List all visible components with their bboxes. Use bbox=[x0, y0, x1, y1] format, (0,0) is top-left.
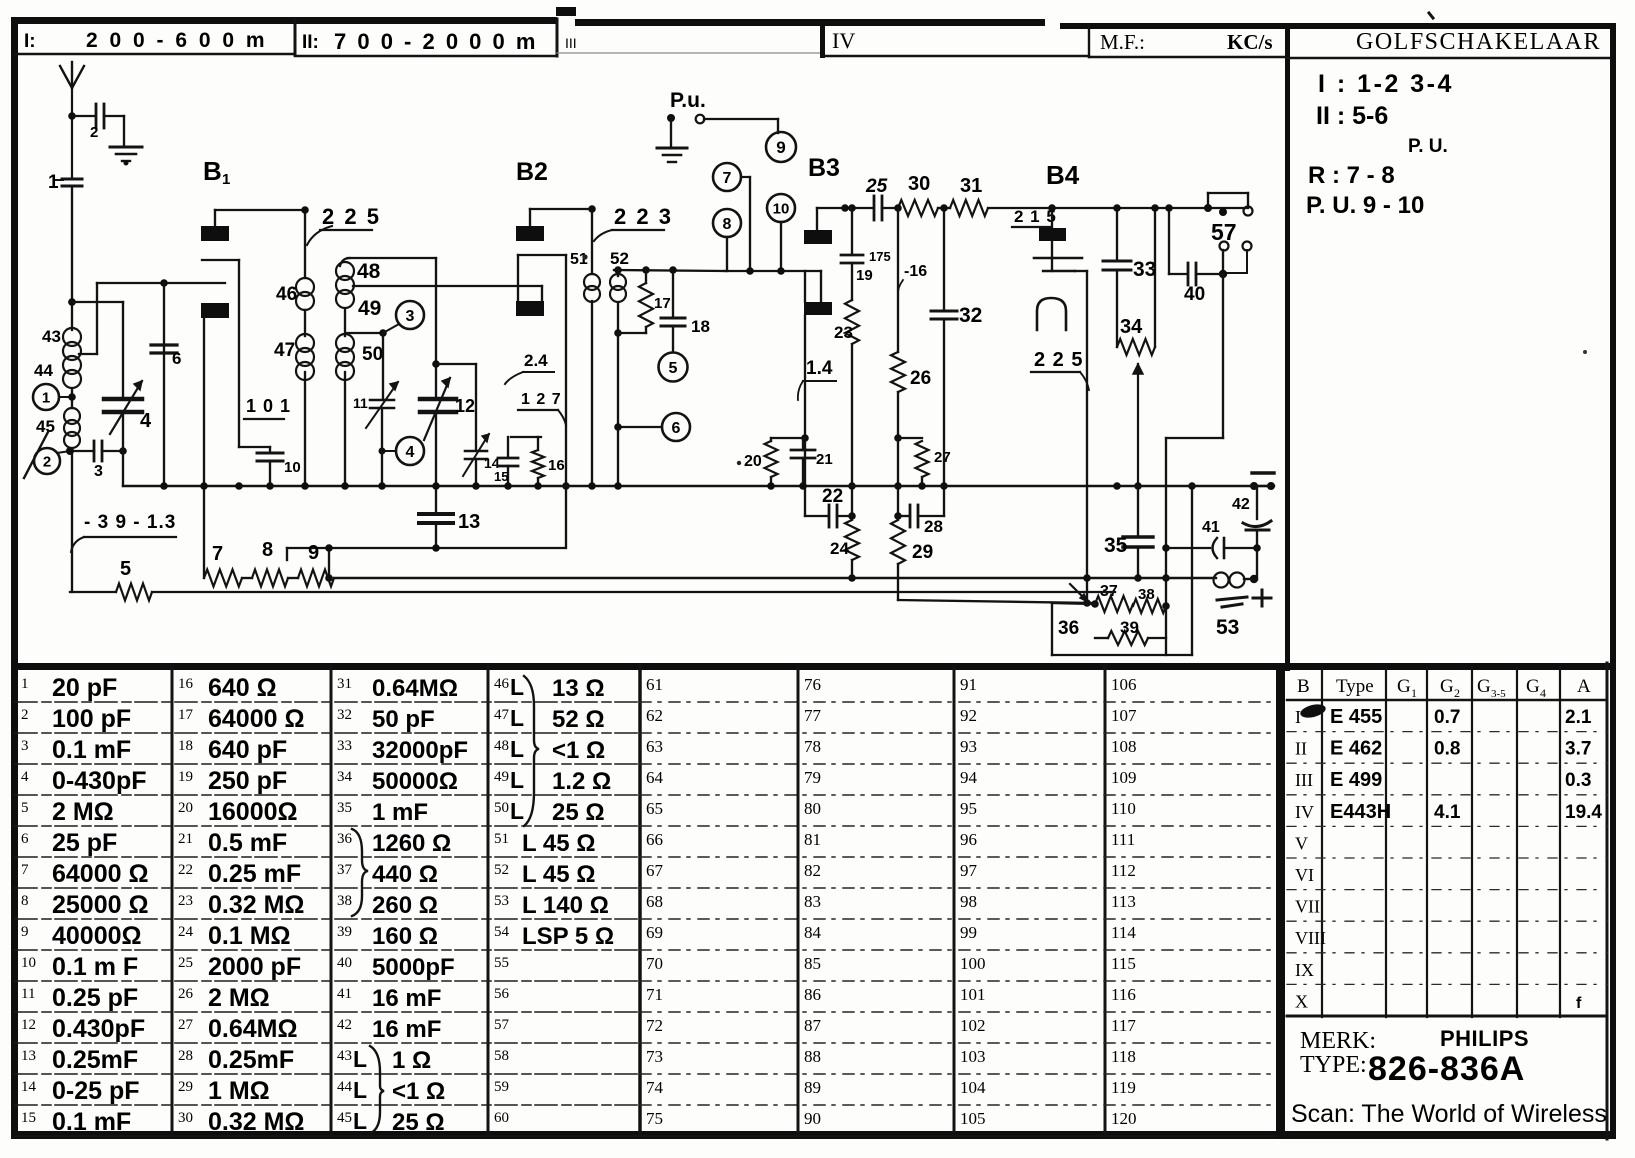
svg-text:25 Ω: 25 Ω bbox=[392, 1109, 445, 1136]
svg-text:111: 111 bbox=[1111, 830, 1135, 849]
svg-text:E 499: E 499 bbox=[1330, 769, 1382, 791]
svg-text:0.1 mF: 0.1 mF bbox=[52, 1108, 131, 1136]
svg-text:19.4: 19.4 bbox=[1565, 802, 1602, 823]
svg-text:20 pF: 20 pF bbox=[52, 674, 117, 702]
svg-text:IX: IX bbox=[1295, 960, 1314, 980]
svg-text:L: L bbox=[510, 674, 524, 700]
svg-text:43: 43 bbox=[337, 1048, 352, 1064]
svg-text:50: 50 bbox=[362, 344, 383, 365]
svg-text:II: II bbox=[1295, 739, 1307, 759]
svg-text:60: 60 bbox=[494, 1110, 509, 1126]
svg-text:III: III bbox=[1295, 770, 1313, 790]
svg-text:45: 45 bbox=[36, 417, 55, 436]
svg-text:13: 13 bbox=[458, 511, 480, 533]
svg-text:22: 22 bbox=[822, 486, 843, 507]
svg-text:104: 104 bbox=[960, 1078, 986, 1097]
svg-text:- 3 9 - 1.3: - 3 9 - 1.3 bbox=[84, 512, 176, 533]
svg-text:640 Ω: 640 Ω bbox=[208, 674, 277, 702]
svg-text:25: 25 bbox=[178, 955, 193, 971]
svg-text:24: 24 bbox=[830, 539, 849, 558]
svg-text:L: L bbox=[353, 1046, 367, 1072]
svg-text:9: 9 bbox=[776, 138, 785, 157]
svg-text:72: 72 bbox=[646, 1016, 663, 1035]
svg-text:0.5 mF: 0.5 mF bbox=[208, 829, 287, 857]
svg-text:15: 15 bbox=[494, 469, 508, 484]
svg-text:KC/s: KC/s bbox=[1227, 30, 1273, 54]
svg-text:2: 2 bbox=[43, 453, 51, 470]
svg-text:38: 38 bbox=[337, 893, 352, 909]
svg-text:20: 20 bbox=[744, 453, 762, 470]
svg-text:26: 26 bbox=[910, 368, 931, 389]
svg-text:4: 4 bbox=[140, 410, 152, 432]
svg-text:103: 103 bbox=[960, 1047, 986, 1066]
svg-text:1: 1 bbox=[222, 171, 230, 188]
svg-text:62: 62 bbox=[646, 706, 663, 725]
svg-text:L 45 Ω: L 45 Ω bbox=[522, 861, 596, 888]
svg-text:46: 46 bbox=[494, 676, 510, 692]
svg-text:0.64MΩ: 0.64MΩ bbox=[208, 1015, 298, 1043]
svg-text:MERK:: MERK: bbox=[1300, 1028, 1376, 1054]
svg-text:56: 56 bbox=[494, 986, 510, 1002]
svg-text:18: 18 bbox=[178, 738, 193, 754]
svg-text:250 pF: 250 pF bbox=[208, 767, 287, 795]
svg-text:52: 52 bbox=[610, 249, 629, 268]
svg-text:34: 34 bbox=[1120, 316, 1143, 338]
svg-text:105: 105 bbox=[960, 1109, 986, 1128]
svg-text:L: L bbox=[353, 1108, 367, 1134]
svg-text:42: 42 bbox=[1232, 496, 1250, 513]
svg-text:81: 81 bbox=[804, 830, 821, 849]
svg-text:109: 109 bbox=[1111, 768, 1137, 787]
svg-text:640 pF: 640 pF bbox=[208, 736, 287, 764]
svg-text:99: 99 bbox=[960, 923, 977, 942]
svg-text:107: 107 bbox=[1111, 706, 1137, 725]
svg-text:64: 64 bbox=[646, 768, 664, 787]
svg-text:32: 32 bbox=[959, 304, 982, 327]
svg-text:89: 89 bbox=[804, 1078, 821, 1097]
svg-text:98: 98 bbox=[960, 892, 977, 911]
svg-text:1: 1 bbox=[21, 676, 29, 692]
svg-text:VII: VII bbox=[1295, 897, 1320, 917]
svg-text:V: V bbox=[1295, 833, 1308, 853]
svg-text:B3: B3 bbox=[808, 154, 840, 182]
svg-text:59: 59 bbox=[494, 1079, 509, 1095]
svg-text:1: 1 bbox=[42, 389, 50, 406]
svg-text:40000Ω: 40000Ω bbox=[52, 922, 142, 950]
svg-text:36: 36 bbox=[1058, 618, 1079, 639]
svg-text:75: 75 bbox=[646, 1109, 663, 1128]
svg-text:5: 5 bbox=[120, 558, 131, 580]
svg-text:65: 65 bbox=[646, 799, 663, 818]
svg-text:25000 Ω: 25000 Ω bbox=[52, 891, 149, 919]
svg-text:36: 36 bbox=[337, 831, 353, 847]
svg-text:9: 9 bbox=[308, 542, 319, 564]
svg-text:3.7: 3.7 bbox=[1565, 739, 1591, 760]
svg-text:12: 12 bbox=[455, 396, 475, 416]
svg-text:1.2 Ω: 1.2 Ω bbox=[552, 768, 611, 795]
svg-text:45: 45 bbox=[337, 1110, 352, 1126]
svg-text:117: 117 bbox=[1111, 1016, 1136, 1035]
svg-text:0.1 mF: 0.1 mF bbox=[52, 736, 131, 764]
svg-text:2 MΩ: 2 MΩ bbox=[208, 984, 270, 1012]
svg-text:P. U. 9 - 10: P. U. 9 - 10 bbox=[1306, 192, 1424, 219]
svg-text:37: 37 bbox=[337, 862, 353, 878]
svg-text:B: B bbox=[1297, 676, 1310, 697]
svg-text:3: 3 bbox=[94, 463, 103, 480]
svg-text:52: 52 bbox=[494, 862, 509, 878]
svg-text:27: 27 bbox=[934, 449, 951, 466]
svg-text:29: 29 bbox=[912, 542, 933, 563]
svg-text:52 Ω: 52 Ω bbox=[552, 706, 605, 733]
svg-text:53: 53 bbox=[1216, 616, 1239, 639]
svg-text:4.1: 4.1 bbox=[1434, 802, 1461, 823]
svg-text:92: 92 bbox=[960, 706, 977, 725]
svg-text:0.25mF: 0.25mF bbox=[52, 1046, 138, 1074]
svg-text:28: 28 bbox=[178, 1048, 193, 1064]
svg-text:30: 30 bbox=[908, 173, 930, 195]
svg-text:1 mF: 1 mF bbox=[372, 799, 428, 826]
svg-text:P.u.: P.u. bbox=[670, 89, 706, 112]
svg-text:87: 87 bbox=[804, 1016, 822, 1035]
svg-text:73: 73 bbox=[646, 1047, 663, 1066]
svg-text:1 MΩ: 1 MΩ bbox=[208, 1077, 270, 1105]
svg-text:5: 5 bbox=[669, 360, 678, 377]
svg-text:0-430pF: 0-430pF bbox=[52, 767, 146, 795]
svg-text:I : 1-2 3-4: I : 1-2 3-4 bbox=[1318, 70, 1454, 98]
svg-text:26: 26 bbox=[178, 986, 194, 1002]
svg-text:L: L bbox=[510, 767, 524, 793]
svg-text:61: 61 bbox=[646, 675, 663, 694]
svg-text:L: L bbox=[510, 736, 524, 762]
svg-text:0.7: 0.7 bbox=[1434, 707, 1460, 728]
svg-text:33: 33 bbox=[337, 738, 352, 754]
svg-text:3: 3 bbox=[406, 308, 415, 325]
svg-text:48: 48 bbox=[357, 260, 381, 283]
svg-text:20: 20 bbox=[178, 800, 193, 816]
svg-text:24: 24 bbox=[178, 924, 194, 940]
svg-text:97: 97 bbox=[960, 861, 978, 880]
svg-text:0.430pF: 0.430pF bbox=[52, 1015, 145, 1043]
svg-text:39: 39 bbox=[1120, 618, 1139, 637]
svg-text:6: 6 bbox=[21, 831, 29, 847]
svg-text:16: 16 bbox=[548, 457, 565, 474]
svg-text:25 Ω: 25 Ω bbox=[552, 799, 605, 826]
svg-text:IV: IV bbox=[1295, 802, 1314, 822]
svg-text:80: 80 bbox=[804, 799, 821, 818]
svg-text:91: 91 bbox=[960, 675, 977, 694]
svg-text:-16: -16 bbox=[904, 263, 927, 280]
svg-text:19: 19 bbox=[856, 267, 873, 284]
svg-text:66: 66 bbox=[646, 830, 663, 849]
svg-text:31: 31 bbox=[337, 676, 352, 692]
svg-text:2 2 5: 2 2 5 bbox=[322, 204, 381, 229]
svg-text:67: 67 bbox=[646, 861, 664, 880]
svg-text:G: G bbox=[1526, 676, 1540, 697]
svg-text:GOLFSCHAKELAAR: GOLFSCHAKELAAR bbox=[1356, 29, 1601, 55]
svg-text:LSP 5 Ω: LSP 5 Ω bbox=[522, 923, 614, 950]
svg-text:2000 pF: 2000 pF bbox=[208, 953, 301, 981]
svg-text:2 2 3: 2 2 3 bbox=[614, 204, 673, 229]
svg-text:21: 21 bbox=[178, 831, 193, 847]
svg-text:106: 106 bbox=[1111, 675, 1137, 694]
svg-text:114: 114 bbox=[1111, 923, 1136, 942]
svg-text:35: 35 bbox=[337, 800, 352, 816]
svg-text:16000Ω: 16000Ω bbox=[208, 798, 298, 826]
svg-text:43: 43 bbox=[42, 327, 61, 346]
svg-text:64000 Ω: 64000 Ω bbox=[52, 860, 149, 888]
svg-text:119: 119 bbox=[1111, 1078, 1136, 1097]
svg-text:21: 21 bbox=[816, 451, 833, 468]
svg-text:46: 46 bbox=[276, 284, 297, 305]
svg-text:42: 42 bbox=[337, 1017, 352, 1033]
svg-text:76: 76 bbox=[804, 675, 821, 694]
svg-text:17: 17 bbox=[654, 295, 671, 312]
svg-text:2 MΩ: 2 MΩ bbox=[52, 798, 114, 826]
svg-text:0.64MΩ: 0.64MΩ bbox=[372, 675, 458, 702]
svg-text:113: 113 bbox=[1111, 892, 1136, 911]
svg-text:826-836A: 826-836A bbox=[1368, 1050, 1525, 1088]
svg-text:<1 Ω: <1 Ω bbox=[552, 737, 605, 764]
svg-text:7: 7 bbox=[21, 862, 29, 878]
svg-text:7: 7 bbox=[212, 543, 223, 565]
svg-text:38: 38 bbox=[1138, 586, 1155, 603]
svg-text:440 Ω: 440 Ω bbox=[372, 861, 438, 888]
svg-text:58: 58 bbox=[494, 1048, 509, 1064]
svg-text:0.32 MΩ: 0.32 MΩ bbox=[208, 1108, 304, 1136]
svg-text:0.25mF: 0.25mF bbox=[208, 1046, 294, 1074]
svg-text:100 pF: 100 pF bbox=[52, 705, 131, 733]
svg-text:112: 112 bbox=[1111, 861, 1136, 880]
svg-text:7 0 0 - 2 0 0 0 m: 7 0 0 - 2 0 0 0 m bbox=[334, 29, 538, 54]
svg-text:64000 Ω: 64000 Ω bbox=[208, 705, 305, 733]
svg-text:33: 33 bbox=[1133, 258, 1156, 281]
svg-text:12: 12 bbox=[21, 1017, 36, 1033]
svg-text:41: 41 bbox=[337, 986, 352, 1002]
svg-text:28: 28 bbox=[924, 517, 943, 536]
svg-text:4: 4 bbox=[21, 769, 29, 785]
svg-text:93: 93 bbox=[960, 737, 977, 756]
svg-text:40: 40 bbox=[1184, 284, 1205, 305]
svg-text:13: 13 bbox=[21, 1048, 36, 1064]
svg-text:G: G bbox=[1397, 676, 1411, 697]
svg-text:0.3: 0.3 bbox=[1565, 770, 1591, 791]
svg-text:0.1 MΩ: 0.1 MΩ bbox=[208, 922, 291, 950]
svg-text:94: 94 bbox=[960, 768, 978, 787]
svg-text:96: 96 bbox=[960, 830, 977, 849]
svg-text:X: X bbox=[1295, 991, 1308, 1011]
svg-text:90: 90 bbox=[804, 1109, 821, 1128]
svg-text:L 45 Ω: L 45 Ω bbox=[522, 830, 596, 857]
svg-text:2 0 0 - 6 0 0 m: 2 0 0 - 6 0 0 m bbox=[86, 29, 268, 52]
svg-text:49: 49 bbox=[358, 297, 381, 320]
svg-text:18: 18 bbox=[691, 317, 710, 336]
svg-text:I: I bbox=[1295, 707, 1301, 727]
svg-text:48: 48 bbox=[494, 738, 509, 754]
svg-text:IV: IV bbox=[832, 28, 855, 53]
svg-text:34: 34 bbox=[337, 769, 353, 785]
svg-text:27: 27 bbox=[178, 1017, 194, 1033]
svg-text:P. U.: P. U. bbox=[1408, 136, 1448, 157]
svg-text:88: 88 bbox=[804, 1047, 821, 1066]
svg-text:53: 53 bbox=[494, 893, 509, 909]
svg-text:L 140 Ω: L 140 Ω bbox=[522, 892, 609, 919]
svg-text:50 pF: 50 pF bbox=[372, 706, 435, 733]
svg-text:0.25 pF: 0.25 pF bbox=[52, 984, 138, 1012]
svg-text:1260 Ω: 1260 Ω bbox=[372, 830, 451, 857]
svg-text:Scan: The World of Wireless: Scan: The World of Wireless bbox=[1291, 1100, 1607, 1128]
svg-text:31: 31 bbox=[960, 175, 982, 197]
svg-text:0.32 MΩ: 0.32 MΩ bbox=[208, 891, 304, 919]
svg-text:44: 44 bbox=[34, 361, 53, 380]
svg-text:19: 19 bbox=[178, 769, 193, 785]
svg-text:41: 41 bbox=[1202, 519, 1220, 536]
svg-text:3: 3 bbox=[21, 738, 29, 754]
svg-text:6: 6 bbox=[172, 349, 181, 368]
svg-text:3-5: 3-5 bbox=[1491, 688, 1506, 700]
svg-text:70: 70 bbox=[646, 954, 663, 973]
svg-text:1 0 1: 1 0 1 bbox=[246, 396, 291, 416]
svg-text:TYPE:: TYPE: bbox=[1300, 1052, 1367, 1078]
svg-text:E 455: E 455 bbox=[1330, 706, 1382, 728]
svg-text:50000Ω: 50000Ω bbox=[372, 768, 458, 795]
svg-text:0.8: 0.8 bbox=[1434, 739, 1460, 760]
svg-text:86: 86 bbox=[804, 985, 821, 1004]
svg-text:0.25 mF: 0.25 mF bbox=[208, 860, 301, 888]
svg-text:116: 116 bbox=[1111, 985, 1136, 1004]
svg-text:4: 4 bbox=[406, 444, 415, 461]
svg-text:39: 39 bbox=[337, 924, 352, 940]
svg-text:10: 10 bbox=[773, 200, 790, 217]
svg-text:44: 44 bbox=[337, 1079, 353, 1095]
svg-text:6: 6 bbox=[672, 420, 681, 437]
svg-text:B: B bbox=[203, 156, 222, 186]
svg-text:1: 1 bbox=[1411, 686, 1417, 700]
svg-text:120: 120 bbox=[1111, 1109, 1137, 1128]
svg-text:16 mF: 16 mF bbox=[372, 1016, 441, 1043]
svg-text:E 462: E 462 bbox=[1330, 738, 1382, 760]
svg-text:VI: VI bbox=[1295, 865, 1314, 885]
svg-text:L: L bbox=[510, 798, 524, 824]
svg-text:57: 57 bbox=[494, 1017, 510, 1033]
svg-text:III: III bbox=[565, 35, 577, 51]
svg-text:35: 35 bbox=[1104, 534, 1128, 557]
svg-text:77: 77 bbox=[804, 706, 822, 725]
svg-text:63: 63 bbox=[646, 737, 663, 756]
svg-text:10: 10 bbox=[21, 955, 36, 971]
svg-text:PHILIPS: PHILIPS bbox=[1440, 1026, 1529, 1051]
svg-text:8: 8 bbox=[262, 539, 273, 561]
svg-text:115: 115 bbox=[1111, 954, 1136, 973]
svg-text:101: 101 bbox=[960, 985, 986, 1004]
svg-text:II:: II: bbox=[302, 32, 319, 53]
svg-text:B4: B4 bbox=[1046, 160, 1080, 190]
svg-text:32000pF: 32000pF bbox=[372, 737, 468, 764]
svg-text:2: 2 bbox=[21, 707, 29, 723]
svg-text:0.1 m F: 0.1 m F bbox=[52, 953, 138, 981]
svg-text:L: L bbox=[510, 705, 524, 731]
svg-text:85: 85 bbox=[804, 954, 821, 973]
svg-text:100: 100 bbox=[960, 954, 986, 973]
svg-text:82: 82 bbox=[804, 861, 821, 880]
svg-text:51: 51 bbox=[494, 831, 509, 847]
svg-text:47: 47 bbox=[494, 707, 510, 723]
svg-text:VIII: VIII bbox=[1295, 928, 1326, 948]
svg-text:79: 79 bbox=[804, 768, 821, 787]
svg-text:118: 118 bbox=[1111, 1047, 1136, 1066]
svg-text:G: G bbox=[1477, 676, 1491, 697]
svg-text:32: 32 bbox=[337, 707, 352, 723]
svg-text:78: 78 bbox=[804, 737, 821, 756]
svg-text:B2: B2 bbox=[516, 158, 548, 186]
svg-text:10: 10 bbox=[284, 459, 301, 476]
svg-text:25: 25 bbox=[865, 176, 888, 197]
svg-text:102: 102 bbox=[960, 1016, 986, 1035]
svg-text:2: 2 bbox=[90, 124, 98, 141]
svg-text:16 mF: 16 mF bbox=[372, 985, 441, 1012]
svg-text:5000pF: 5000pF bbox=[372, 954, 455, 981]
svg-text:<1 Ω: <1 Ω bbox=[392, 1078, 445, 1105]
svg-text:2 2 5: 2 2 5 bbox=[1034, 349, 1083, 371]
svg-text:13 Ω: 13 Ω bbox=[552, 675, 605, 702]
svg-text:8: 8 bbox=[21, 893, 29, 909]
svg-text:17: 17 bbox=[178, 707, 194, 723]
svg-text:74: 74 bbox=[646, 1078, 664, 1097]
svg-text:M.F.:: M.F.: bbox=[1100, 30, 1145, 54]
svg-text:84: 84 bbox=[804, 923, 822, 942]
svg-text:68: 68 bbox=[646, 892, 663, 911]
svg-text:E443H: E443H bbox=[1330, 801, 1391, 823]
svg-text:R : 7 - 8: R : 7 - 8 bbox=[1308, 162, 1395, 189]
svg-text:30: 30 bbox=[178, 1110, 193, 1126]
svg-text:50: 50 bbox=[494, 800, 509, 816]
svg-text:1 2 7: 1 2 7 bbox=[521, 391, 562, 408]
svg-text:175: 175 bbox=[869, 249, 891, 264]
svg-text:8: 8 bbox=[723, 216, 732, 233]
svg-text:2: 2 bbox=[1454, 686, 1460, 700]
svg-text:2.1: 2.1 bbox=[1565, 707, 1592, 728]
svg-text:5: 5 bbox=[21, 800, 29, 816]
svg-text:9: 9 bbox=[21, 924, 29, 940]
svg-text:49: 49 bbox=[494, 769, 509, 785]
svg-text:55: 55 bbox=[494, 955, 509, 971]
svg-text:II : 5-6: II : 5-6 bbox=[1316, 102, 1388, 130]
svg-text:0-25 pF: 0-25 pF bbox=[52, 1077, 140, 1105]
svg-text:I:: I: bbox=[24, 31, 36, 52]
svg-text:260 Ω: 260 Ω bbox=[372, 892, 438, 919]
svg-text:160 Ω: 160 Ω bbox=[372, 923, 438, 950]
svg-text:69: 69 bbox=[646, 923, 663, 942]
svg-text:16: 16 bbox=[178, 676, 194, 692]
svg-text:40: 40 bbox=[337, 955, 352, 971]
svg-text:54: 54 bbox=[494, 924, 510, 940]
svg-text:A: A bbox=[1577, 676, 1591, 697]
svg-text:1.4: 1.4 bbox=[806, 358, 833, 379]
svg-text:22: 22 bbox=[178, 862, 193, 878]
svg-text:95: 95 bbox=[960, 799, 977, 818]
svg-text:110: 110 bbox=[1111, 799, 1136, 818]
svg-text:Type: Type bbox=[1336, 676, 1374, 697]
svg-text:f: f bbox=[1576, 995, 1582, 1012]
svg-text:47: 47 bbox=[274, 340, 295, 361]
svg-text:83: 83 bbox=[804, 892, 821, 911]
svg-text:25 pF: 25 pF bbox=[52, 829, 117, 857]
svg-text:11: 11 bbox=[353, 395, 368, 411]
svg-text:29: 29 bbox=[178, 1079, 193, 1095]
svg-text:11: 11 bbox=[21, 986, 35, 1002]
svg-text:G: G bbox=[1440, 676, 1454, 697]
svg-text:108: 108 bbox=[1111, 737, 1137, 756]
svg-text:L: L bbox=[353, 1077, 367, 1103]
